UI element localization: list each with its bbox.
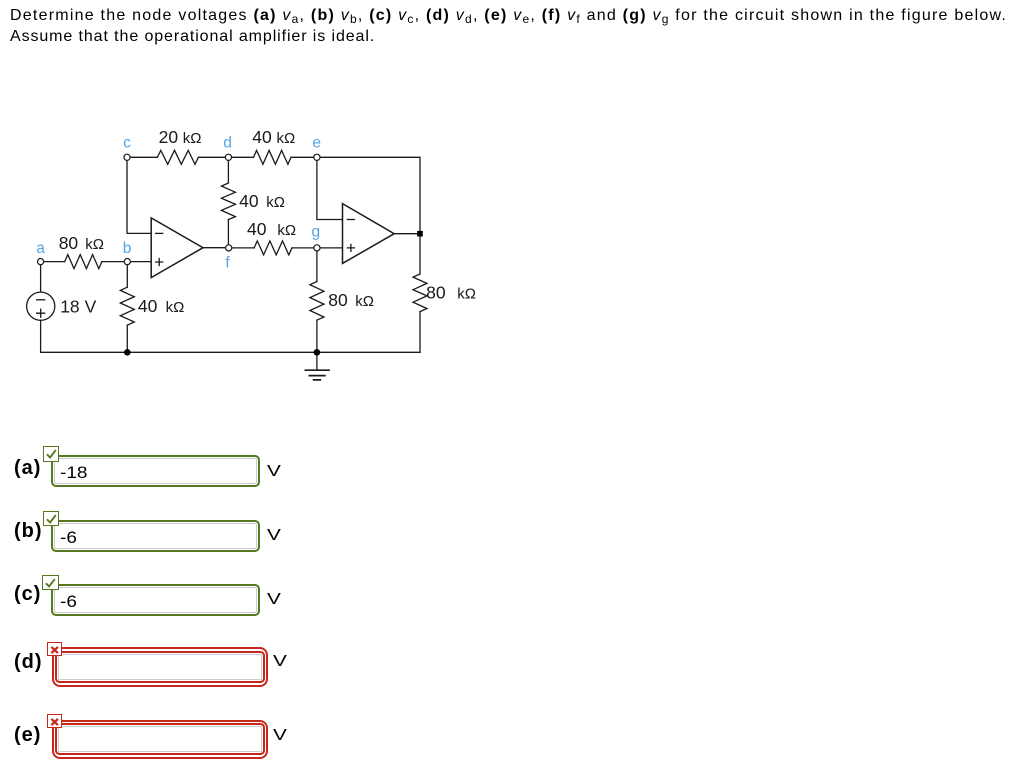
- node g: [314, 245, 320, 251]
- svg-text:18V: 18V: [60, 297, 96, 317]
- wire e down to op-amp U2 - input: [317, 157, 343, 219]
- svg-text:80kΩ: 80kΩ: [59, 233, 104, 253]
- node a: [38, 259, 44, 265]
- wire op-amp U1 output to f: [203, 247, 229, 249]
- wire d down: [227, 157, 229, 183]
- op-amp U2 minus: [347, 219, 354, 221]
- wire 40k to rail: [126, 325, 128, 352]
- op-amp U1: [151, 218, 203, 278]
- wire resistor to b: [102, 261, 127, 263]
- resistor R 80k right: [413, 274, 427, 312]
- ground stub: [316, 352, 318, 370]
- svg-text:80kΩ: 80kΩ: [328, 290, 374, 310]
- wire 80k to rail: [316, 320, 318, 352]
- svg-text:e: e: [312, 135, 321, 152]
- resistor R 80k a-b: [65, 255, 102, 269]
- resistor R 20k c-d: [157, 150, 198, 164]
- wire a to resistor 80k: [41, 261, 65, 263]
- node f: [226, 245, 232, 251]
- svg-text:40kΩ: 40kΩ: [239, 191, 285, 211]
- answer row (c): [14, 586, 41, 602]
- svg-text:40kΩ: 40kΩ: [252, 127, 295, 147]
- resistor R 80k below g: [310, 282, 324, 321]
- node e: [314, 154, 320, 160]
- svg-text:b: b: [123, 240, 132, 257]
- voltage source 18V circle: [27, 292, 55, 320]
- wire output node down: [419, 234, 421, 274]
- wire c to resistor 20k: [127, 156, 157, 158]
- wire 20k to d: [198, 156, 228, 158]
- wire f to resistor 40k: [229, 247, 254, 249]
- answer row (a): [14, 460, 41, 476]
- junction dot op-amp U2 output: [417, 231, 423, 237]
- resistor R 40k d-f vertical: [221, 183, 235, 220]
- resistor R 40k d-e: [254, 150, 292, 164]
- junction dot b-rail: [124, 349, 131, 356]
- bottom rail wire: [41, 351, 420, 353]
- wire g down: [316, 248, 318, 282]
- question text: [10, 6, 1024, 47]
- op-amp U1 plus: [156, 259, 163, 266]
- wire 40k to e: [291, 156, 317, 158]
- node c: [124, 154, 130, 160]
- wire a down to source: [40, 262, 42, 293]
- junction dot g-rail: [314, 349, 321, 356]
- wire g to op-amp U2 + input: [317, 247, 343, 249]
- source plus sign: [37, 309, 45, 317]
- ground bars: [305, 370, 329, 380]
- svg-text:f: f: [225, 254, 230, 271]
- svg-text:40kΩ: 40kΩ: [138, 296, 184, 316]
- svg-text:c: c: [123, 135, 131, 152]
- svg-text:g: g: [311, 224, 320, 241]
- answer row (e): [14, 727, 41, 743]
- wire 80k right to rail: [419, 312, 421, 353]
- wire e to right top corner and down to output node: [317, 157, 420, 233]
- wire b to op-amp U1 + input: [127, 261, 151, 263]
- svg-text:80kΩ: 80kΩ: [426, 283, 476, 303]
- wire 40k to f: [227, 220, 229, 248]
- wire source to bottom rail: [40, 320, 42, 352]
- resistor R 40k f-g: [254, 241, 292, 255]
- node b: [124, 259, 130, 265]
- op-amp U2 plus: [347, 244, 354, 251]
- answer row (b): [14, 523, 43, 539]
- op-amp U1 minus: [156, 232, 163, 234]
- node d: [225, 154, 231, 160]
- wire b down: [126, 262, 128, 288]
- svg-text:d: d: [223, 135, 232, 152]
- wire op-amp U2 output: [394, 233, 420, 235]
- resistor R 40k below b: [120, 287, 134, 325]
- svg-text:20kΩ: 20kΩ: [159, 127, 202, 147]
- wire c down to op-amp U1 - input: [127, 157, 151, 233]
- answer row (d): [14, 654, 43, 670]
- wire d to resistor 40k: [228, 156, 253, 158]
- svg-text:40kΩ: 40kΩ: [247, 219, 296, 239]
- wire 40k to g: [292, 247, 317, 249]
- op-amp U2: [343, 204, 395, 264]
- svg-text:a: a: [36, 240, 45, 257]
- source minus sign: [37, 299, 45, 301]
